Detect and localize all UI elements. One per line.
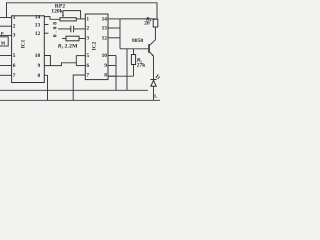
capacitor 0.08 left wire [58, 28, 71, 30]
wire pin14 row to R4 top [120, 18, 156, 20]
svg-text:1: 1 [13, 15, 16, 21]
svg-text:M: M [1, 40, 6, 45]
svg-text:2.2M: 2.2M [65, 44, 79, 50]
resistor R5 box [131, 55, 135, 65]
svg-text:120k: 120k [51, 9, 63, 15]
potentiometer RP2 body [60, 18, 76, 21]
svg-text:3: 3 [86, 35, 89, 41]
wire IC1 pin5 to left edge [0, 55, 12, 57]
svg-text:10: 10 [35, 53, 41, 59]
op IC1 box [12, 16, 45, 83]
LED D1 cathode bar [150, 79, 156, 81]
LED D1 triangle [151, 80, 156, 86]
LED emission arrows [156, 75, 158, 78]
svg-text:7: 7 [86, 73, 89, 79]
wire IC2 pin10 stub [108, 55, 116, 57]
svg-text:13: 13 [102, 26, 108, 32]
svg-text:2: 2 [13, 24, 16, 30]
svg-text:14: 14 [102, 17, 108, 23]
potentiometer RP2 wiper arrow [62, 11, 64, 17]
wire wiper hook to IC2 pin1 [63, 11, 81, 19]
svg-text:IC1: IC1 [21, 39, 27, 48]
wire pins 10,9,8 tie down to upper rail [115, 56, 117, 91]
svg-text:20: 20 [144, 21, 150, 27]
wire IC1 pin7 to left edge [0, 74, 12, 76]
svg-text:1: 1 [86, 17, 89, 23]
ground rail upper [0, 89, 148, 91]
svg-text:12: 12 [35, 31, 41, 37]
wire IC1 pin9 row across with step [44, 63, 76, 66]
resistor R4 box [153, 19, 158, 27]
wire IC2 pin14 stub [108, 18, 120, 20]
wire IC1 pin2 to left edge [0, 25, 12, 27]
svg-text:6: 6 [86, 63, 89, 69]
svg-text:5: 5 [13, 53, 16, 59]
svg-text:IC2: IC2 [92, 41, 98, 50]
wire IC1 pin10 stub down [44, 56, 50, 66]
svg-text:10: 10 [102, 53, 108, 59]
resistor R5 bottom lead [133, 65, 135, 77]
wire IC1 pin8 down to lower rail [44, 75, 47, 100]
svg-text:7: 7 [13, 73, 16, 79]
resistor R3 right lead to IC2 pin3 [79, 38, 85, 40]
wire top rail V+ [7, 3, 158, 19]
wire IC2 pin13 stub [108, 27, 120, 29]
wire IC1 pin1 to left edge [0, 17, 12, 19]
svg-text:L: L [154, 94, 157, 99]
ground rail lower [0, 99, 160, 101]
resistor R3 left lead [62, 38, 66, 40]
wire LED to lower rail [153, 86, 155, 100]
wire base node down to upper rail [126, 49, 128, 91]
wire IC1 pin12 stub [44, 32, 48, 34]
svg-text:5: 5 [86, 53, 89, 59]
svg-text:13: 13 [35, 22, 41, 28]
svg-text:6: 6 [13, 63, 16, 69]
svg-text:12: 12 [102, 35, 108, 41]
wire node across to R5 bottom [108, 75, 134, 77]
resistor R3 box [66, 36, 79, 41]
svg-text:9: 9 [104, 63, 107, 69]
svg-text:μ: μ [1, 30, 4, 35]
IC2 box [85, 14, 108, 80]
svg-text:8050: 8050 [132, 38, 143, 44]
wire IC2 pin8 stub [108, 75, 116, 77]
wire IC1 pin3 to left edge [0, 34, 12, 36]
wire IC2 pin6 stub [76, 65, 85, 67]
svg-text:0.08: 0.08 [52, 20, 58, 37]
wire emitter down to LED [153, 56, 155, 79]
svg-text:14: 14 [35, 14, 41, 20]
wire IC1 pin13 stub [44, 24, 48, 26]
wire IC2 pins 14,13,12 tie vertical [119, 19, 121, 49]
transistor emitter with arrow [149, 51, 154, 56]
svg-text:2: 2 [86, 26, 89, 32]
capacitor 0.08 plates [70, 26, 72, 33]
wire junction vertical to IC2 pins 5,6 [75, 56, 77, 66]
svg-text:9: 9 [37, 63, 40, 69]
transistor Q1 base bar [148, 44, 150, 53]
wire IC1 pin6 to left edge [0, 65, 12, 67]
svg-text:8: 8 [37, 73, 40, 79]
wire IC2 pin9 stub [108, 65, 116, 67]
svg-text:4: 4 [150, 19, 152, 23]
svg-text:27k: 27k [137, 62, 145, 68]
svg-text:3: 3 [13, 33, 16, 39]
wire IC2 pin7 down to lower rail [73, 75, 85, 100]
svg-text:8: 8 [104, 73, 107, 79]
wire IC2 pin5 stub [76, 55, 85, 57]
wire IC1 pin14 stub to potentiometer [44, 17, 60, 20]
capacitor right wire to IC2 pin2 [74, 28, 86, 30]
transistor collector [149, 27, 155, 46]
wire IC2 pin12 stub [108, 37, 120, 39]
wire base [120, 48, 149, 50]
resistor R5 top lead [133, 49, 135, 55]
wire pot right end to IC2 pin1 [76, 18, 85, 20]
svg-text:3: 3 [62, 46, 64, 50]
resistor value label M with clipped box [0, 37, 8, 46]
